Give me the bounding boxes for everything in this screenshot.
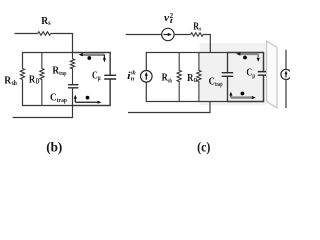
svg-text:C: C [209, 76, 215, 87]
transistor 3D slab (c) [267, 41, 277, 108]
gray current arrow top (c) [238, 53, 258, 55]
node dot top (c) [243, 56, 247, 60]
svg-text:sh: sh [12, 79, 17, 87]
svg-text:μ: μ [98, 74, 101, 82]
voltage source v_t^2 (c) [162, 28, 174, 40]
arrowhead left top (b) [79, 53, 83, 56]
svg-text:n: n [131, 76, 135, 83]
wire from source to R_s (c) [174, 34, 191, 36]
svg-text:s: s [199, 26, 201, 33]
shaded transistor region (c) [200, 43, 267, 105]
bottom ground stub (c) [128, 102, 210, 113]
svg-text:trap: trap [215, 81, 223, 88]
svg-text:μ: μ [252, 73, 255, 80]
resistor R_D branch (b) [40, 53, 44, 106]
gray current arrow top (b) [81, 54, 105, 56]
inner transistor box (c) [228, 53, 264, 102]
resistor R_sh branch (c) [177, 53, 181, 102]
inner transistor box (b): top/right/bottom [73, 53, 111, 106]
node dot bottom (b) [86, 96, 90, 100]
wire below C_trap (b) [72, 88, 74, 106]
wire from R_s to corner and down feed (c) [203, 35, 210, 53]
svg-text:C: C [50, 92, 57, 104]
up arrow bottom (c) [230, 94, 232, 98]
svg-text:trap: trap [59, 70, 66, 77]
output current source (c) [281, 69, 291, 79]
down arrow top (c) [257, 54, 259, 60]
down arrow top (b) [103, 55, 105, 60]
bottom ground stub (b) [13, 106, 73, 118]
right arrow bottom gray bar (c) [231, 96, 254, 98]
svg-text:R: R [4, 76, 11, 87]
resistor R_s (b) zigzag [38, 32, 51, 36]
capacitor C_mu (c) on inner box right edge: gap [262, 72, 265, 74]
node dot bottom (c) [241, 92, 245, 96]
current source i_n^sh (c) on left edge [141, 71, 153, 83]
svg-text:(b): (b) [46, 140, 62, 156]
output current source wire top (c) [285, 50, 287, 70]
right arrow bottom (b) [75, 101, 99, 103]
svg-text:s: s [48, 19, 51, 27]
capacitor C_trap (b) [68, 85, 78, 88]
wire top stub (b) [15, 33, 38, 35]
svg-text:D: D [36, 79, 40, 86]
resistor R_D branch (c) [197, 53, 201, 102]
svg-text:sh: sh [168, 77, 172, 84]
resistor R_sh (b) on left edge [20, 69, 24, 80]
svg-text:trap: trap [57, 97, 67, 104]
outer box (c) [146, 53, 263, 102]
up arrow bottom (b) [74, 97, 76, 102]
svg-text:D: D [194, 77, 198, 84]
output current source wire bottom (c) [285, 80, 287, 109]
resistor R_trap (b) on x=72.5 branch [70, 53, 74, 85]
arrowhead left top (c) [236, 52, 240, 55]
svg-text:t: t [170, 17, 174, 25]
wire top stub (c) [126, 34, 162, 36]
resistor R_s (c) zigzag [191, 33, 203, 37]
outer box (b), left edge broken for R_sh [23, 53, 111, 106]
capacitor C_mu (b) on right edge: gap in edge [109, 76, 112, 79]
svg-text:(c): (c) [197, 140, 210, 156]
svg-text:C: C [246, 68, 252, 79]
wire from R_s to corner and down feed (b) [51, 34, 73, 53]
capacitor C_trap (c) on inner box left edge: gap [226, 73, 229, 75]
node dot top (b) [87, 56, 91, 60]
